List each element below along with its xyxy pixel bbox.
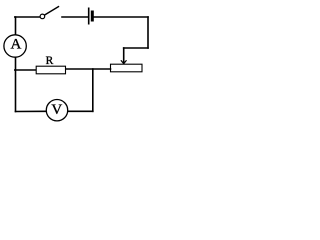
wire rheostat left to resistor R (with junction) xyxy=(66,68,111,70)
ammeter A circle xyxy=(4,35,26,57)
resistor R box xyxy=(36,66,65,74)
wire horizontal to wiper stem xyxy=(124,47,148,49)
rheostat (slide resistor) box xyxy=(111,64,143,72)
svg-text:A: A xyxy=(11,37,22,53)
wire bottom left to voltmeter xyxy=(16,110,47,112)
svg-text:R: R xyxy=(46,55,54,67)
switch S blade (open) xyxy=(45,7,59,15)
battery cell short thick plate (-) xyxy=(91,12,94,20)
battery cell long plate (+) xyxy=(88,8,90,23)
rheostat wiper arrowhead xyxy=(121,61,126,64)
switch S pivot circle xyxy=(40,14,45,19)
wire wiper stem down xyxy=(123,48,125,63)
svg-text:V: V xyxy=(51,102,62,118)
wire right vertical down xyxy=(147,17,149,48)
wire left vertical upper stub to ammeter xyxy=(15,17,17,35)
wire battery to top-right corner xyxy=(94,16,148,18)
wire right loop vertical up to junction xyxy=(92,69,94,111)
voltmeter V circle xyxy=(46,100,67,121)
wire top-left horizontal to switch xyxy=(15,16,40,18)
wire left vertical below ammeter xyxy=(15,58,17,112)
wire switch to battery xyxy=(62,16,88,18)
wire resistor R left lead xyxy=(15,69,36,71)
wire voltmeter to right corner xyxy=(68,110,93,112)
